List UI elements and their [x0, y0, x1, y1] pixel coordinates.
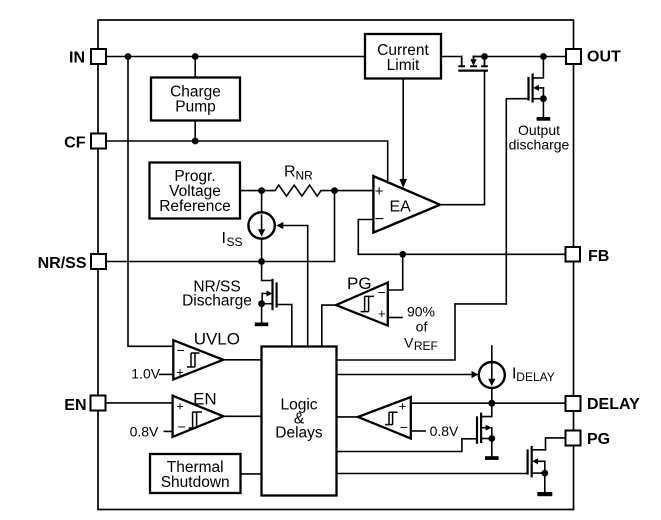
wire UVLO output to Logic — [223, 359, 261, 361]
wire Charge Pump bottom to CF line — [194, 121, 196, 142]
wire EA output up to pass transistor gate — [440, 71, 485, 205]
pin square EN — [91, 396, 106, 411]
svg-text:EN: EN — [193, 389, 217, 408]
wire 0.8V stub to EN comparator minus input — [164, 430, 172, 432]
wire R_NR node down to NR/SS line — [334, 191, 336, 262]
svg-text:Reference: Reference — [159, 198, 231, 215]
node NR/SS line / I_SS bottom — [258, 258, 265, 265]
wire Logic to output-discharge gate and I_DELAY branch — [337, 304, 507, 360]
I_DELAY control arrowhead — [472, 371, 479, 378]
PG pulldown body arrow — [532, 458, 538, 464]
wire Logic to PG pulldown gate — [337, 473, 528, 475]
block Logic and Delays — [262, 347, 337, 496]
svg-text:CF: CF — [64, 135, 86, 152]
svg-text:0.8V: 0.8V — [430, 423, 459, 439]
hysteresis symbol in UVLO — [187, 353, 200, 367]
svg-text:+: + — [399, 399, 407, 414]
svg-text:OUT: OUT — [587, 49, 621, 66]
hysteresis symbol in PG comparator — [361, 296, 374, 311]
wire PG comparator output to Logic top — [322, 305, 336, 346]
node output discharge source — [540, 95, 547, 102]
svg-text:IN: IN — [69, 50, 85, 67]
svg-text:+: + — [176, 399, 184, 414]
wire 0.8V comparator output to Logic — [337, 416, 359, 418]
pin square CF — [91, 134, 106, 149]
node IN/ChargePump junction — [192, 53, 199, 60]
svg-text:−: − — [178, 418, 186, 434]
ground at NR/SS discharge source — [255, 323, 268, 327]
wire 1.0V stub to UVLO plus input — [160, 373, 174, 375]
DELAY discharge body arrow — [486, 425, 492, 431]
svg-text:EN: EN — [64, 397, 86, 414]
svg-text:Delays: Delays — [275, 425, 323, 442]
block Charge Pump — [151, 78, 240, 121]
current source I_DELAY circle — [479, 362, 505, 388]
current source I_SS stubs — [261, 191, 263, 262]
svg-text:Shutdown: Shutdown — [161, 474, 230, 491]
chip boundary outline — [98, 20, 574, 510]
wire IN line to Charge Pump top — [194, 57, 196, 78]
transistor pass PMOS between Current Limit and OUT — [459, 57, 487, 71]
node IN/UVLO junction — [125, 53, 132, 60]
svg-text:UVLO: UVLO — [194, 330, 240, 349]
op-amp EA error amplifier triangle — [373, 176, 440, 233]
hysteresis symbol in EN — [189, 412, 202, 428]
comparator UVLO triangle — [173, 340, 223, 379]
NR/SS discharge body arrow — [267, 290, 273, 296]
comparator 0.8V delay triangle (points left) — [358, 397, 411, 439]
svg-text:+: + — [378, 306, 386, 321]
wire I_DELAY bottom to DELAY line — [491, 388, 493, 403]
I_DELAY internal down arrow — [491, 363, 493, 380]
wire output discharge gate vertical — [506, 99, 528, 304]
comparator EN triangle — [173, 396, 224, 437]
svg-text:+: + — [176, 364, 184, 379]
node output discharge drain on OUT rail — [540, 53, 547, 60]
wire I_SS control from Logic top (arrow) — [283, 226, 308, 347]
svg-text:−: − — [400, 419, 408, 435]
svg-text:I: I — [222, 230, 226, 247]
node DELAY line / I_DELAY — [488, 400, 495, 407]
wire OUT rail from pass transistor drain to OUT pin — [485, 56, 567, 58]
svg-text:of: of — [416, 318, 428, 334]
comparator PG triangle (points left) — [336, 283, 388, 326]
svg-text:DELAY: DELAY — [516, 370, 554, 384]
wire resistor to EA plus input — [321, 190, 373, 192]
wire Current Limit output to EA (arrow) — [402, 79, 404, 180]
hysteresis symbol in 0.8V comparator — [385, 412, 398, 424]
svg-text:+: + — [375, 183, 384, 200]
svg-text:FB: FB — [588, 248, 609, 265]
wire PG pin to PG pulldown drain — [546, 438, 567, 450]
node CF/ChargePump junction — [192, 138, 199, 145]
svg-text:−: − — [378, 284, 386, 300]
node NR/SS discharge source — [258, 300, 265, 307]
wire EN comparator output to Logic — [223, 415, 261, 417]
svg-text:NR: NR — [296, 169, 314, 183]
wire IN node down to UVLO minus input — [128, 57, 173, 347]
ground at PG pulldown source — [537, 492, 552, 496]
svg-text:Pump: Pump — [175, 98, 216, 115]
svg-text:EA: EA — [390, 199, 412, 216]
ground at DELAY discharge source — [485, 456, 499, 460]
wire voltage reference output to resistor — [240, 190, 275, 192]
wire EA minus input to FB line — [358, 220, 373, 255]
wire 0.8V stub to comparator minus input — [411, 430, 425, 432]
wire Current Limit to pass transistor source — [441, 56, 462, 58]
node junction dots — [125, 53, 549, 476]
I_SS internal down arrow — [261, 215, 263, 231]
svg-text:V: V — [404, 335, 414, 351]
wire DELAY line from 0.8V comparator plus input to DELAY pin — [411, 402, 566, 404]
wire FB node down to PG comparator minus input — [388, 254, 403, 290]
svg-text:−: − — [375, 211, 384, 228]
pin square DELAY — [566, 396, 581, 411]
wire CF pin to EA top edge — [107, 141, 388, 183]
pin square PG — [566, 431, 581, 446]
I_SS control arrowhead — [276, 222, 283, 229]
node DELAY discharge source — [488, 435, 495, 442]
resistor R_NR — [275, 185, 321, 196]
wire I_DELAY top supply stub — [491, 346, 493, 362]
svg-text:0.8V: 0.8V — [130, 424, 159, 440]
svg-text:PG: PG — [347, 274, 372, 293]
wire NR/SS pin line — [107, 261, 335, 263]
ground at output discharge source — [537, 117, 551, 121]
svg-text:90%: 90% — [407, 303, 435, 319]
node PG pulldown source — [541, 470, 548, 477]
svg-text:REF: REF — [414, 339, 438, 353]
output discharge body arrow — [533, 85, 539, 91]
transistor output discharge NMOS — [529, 57, 544, 118]
svg-text:R: R — [284, 164, 296, 181]
wire Logic arrow into I_DELAY source — [337, 374, 473, 376]
wire Thermal Shutdown to Logic — [241, 473, 262, 475]
wire PG comparator plus input stub — [388, 317, 402, 319]
svg-text:DELAY: DELAY — [587, 396, 640, 413]
block Thermal Shutdown — [150, 454, 241, 493]
node FB / PG comparator — [399, 251, 406, 258]
wire IN pin to Current Limit — [107, 56, 366, 58]
pin square OUT — [566, 49, 581, 64]
svg-text:1.0V: 1.0V — [131, 366, 160, 382]
pin square NR/SS — [91, 254, 106, 269]
transistor DELAY discharge NMOS — [477, 403, 492, 456]
svg-text:SS: SS — [227, 235, 243, 249]
transistor NR/SS discharge NMOS — [262, 262, 277, 323]
block Progr. Voltage Reference — [150, 163, 241, 219]
svg-text:−: − — [177, 342, 185, 358]
svg-text:Discharge: Discharge — [182, 293, 252, 310]
current source I_SS circle — [248, 212, 274, 238]
svg-text:NR/SS: NR/SS — [38, 255, 87, 272]
block Current Limit — [365, 34, 441, 79]
node R_NR to EA plus — [331, 187, 338, 194]
svg-text:PG: PG — [587, 431, 610, 448]
node reference output / I_SS — [258, 187, 265, 194]
wire Logic to DELAY discharge gate — [337, 439, 478, 452]
wire EN pin to EN comparator — [107, 402, 173, 404]
svg-text:discharge: discharge — [509, 137, 570, 153]
svg-text:Limit: Limit — [387, 57, 420, 74]
transistor PG open-drain NMOS — [528, 447, 546, 492]
wire NR/SS discharge gate to Logic top — [277, 305, 292, 347]
wire FB line to FB pin — [358, 253, 566, 255]
pin square FB — [566, 247, 581, 262]
node pass FET drain on OUT rail — [481, 53, 488, 60]
arrowhead Current Limit into EA — [399, 179, 407, 188]
pin square IN — [91, 49, 582, 446]
pass PMOS body arrow — [470, 59, 476, 66]
